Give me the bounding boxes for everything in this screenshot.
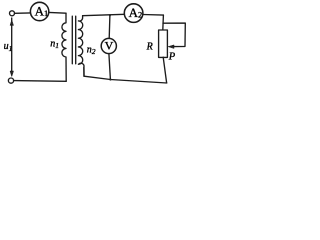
ammeter A1 — [30, 2, 48, 20]
voltmeter branch wire top — [108, 15, 111, 38]
transformer secondary coil n2 — [78, 16, 84, 76]
wire: top terminal to A1 — [15, 12, 31, 14]
wire: A2 to right corner — [143, 14, 164, 17]
wire: resistor bottom down — [163, 57, 166, 82]
wire: bottom terminal to primary — [14, 80, 67, 83]
wiper arrowhead — [168, 45, 174, 48]
junction dot V top — [109, 14, 111, 16]
svg-text:n1: n1 — [50, 38, 59, 50]
svg-text:R: R — [146, 41, 153, 52]
svg-text:P: P — [168, 51, 176, 62]
svg-text:V: V — [105, 39, 114, 53]
voltmeter branch wire bottom — [109, 54, 111, 80]
wire: secondary top to A2 — [83, 14, 125, 15]
voltmeter V — [101, 38, 116, 53]
wire: bottom of secondary loop — [84, 67, 167, 83]
wire: A1 to transformer primary — [49, 11, 66, 14]
transformer primary coil n1 — [62, 13, 66, 81]
wire: right corner down to resistor — [162, 15, 165, 30]
wiper arm wire P — [163, 23, 185, 46]
terminal top-left — [10, 11, 15, 16]
junction dot V bottom — [109, 78, 111, 80]
svg-text:u1: u1 — [4, 41, 13, 53]
ammeter A2 — [124, 4, 143, 23]
terminal bottom-left — [8, 78, 13, 83]
transformer core — [72, 16, 75, 64]
svg-text:n2: n2 — [87, 45, 96, 57]
resistor R box — [159, 30, 168, 57]
u1 voltage arrow — [10, 18, 13, 76]
